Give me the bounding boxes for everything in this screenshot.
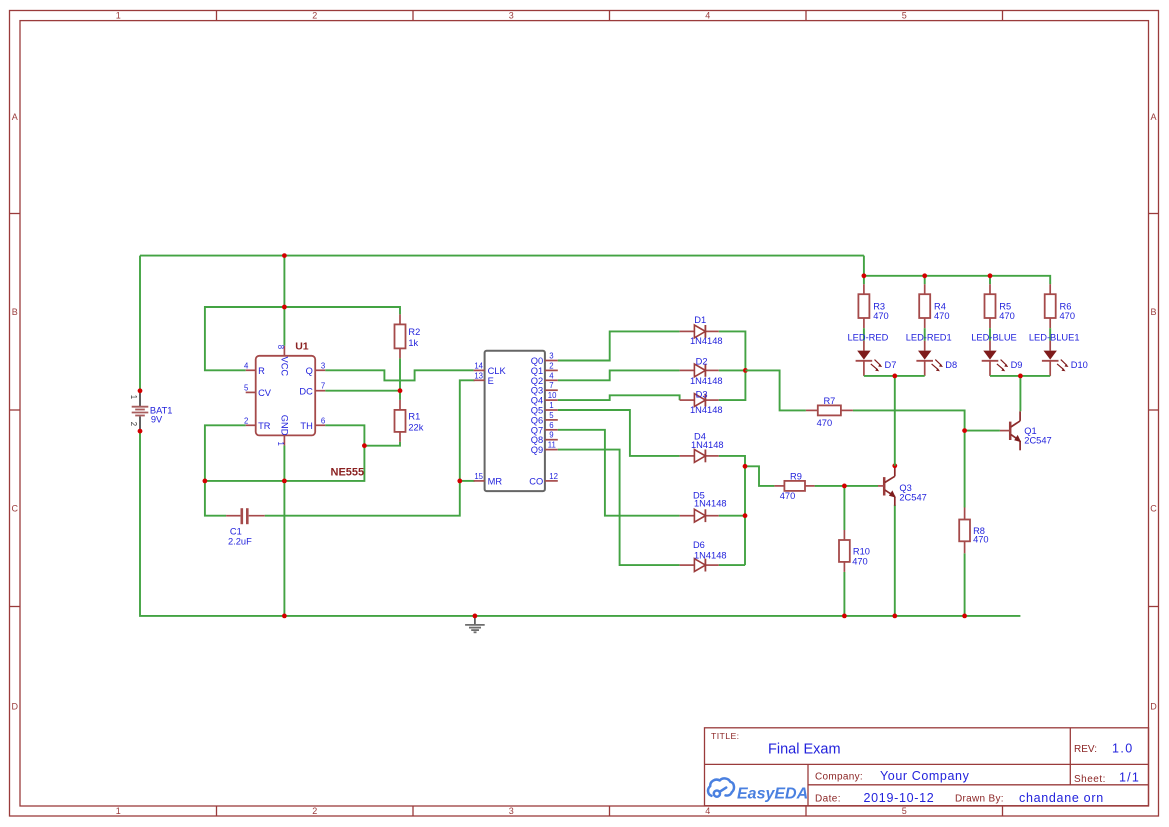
svg-text:4: 4 (705, 11, 710, 21)
junction R5 rail (988, 273, 993, 278)
svg-text:4: 4 (549, 371, 554, 380)
diode D2 1N4148 (680, 357, 723, 387)
wire R9 to Q3 base and R10 (815, 485, 878, 487)
svg-text:A: A (1150, 112, 1156, 122)
wire R4 drop (924, 276, 926, 284)
svg-text:Q1: Q1 (531, 366, 543, 376)
svg-text:6: 6 (321, 416, 325, 425)
junction GND bottom rail (282, 614, 287, 619)
svg-text:LED-BLUE1: LED-BLUE1 (1029, 333, 1080, 343)
svg-text:470: 470 (817, 418, 833, 428)
svg-text:R3: R3 (873, 302, 885, 312)
svg-text:470: 470 (780, 491, 796, 501)
wire C1 right to U2 pin13 E (265, 380, 475, 515)
wire D2 cathode to node (719, 369, 746, 371)
diode D6 1N4148 (680, 540, 727, 572)
resistor R10 (839, 530, 870, 572)
junction D456 node (743, 464, 748, 469)
svg-text:Q: Q (306, 366, 313, 376)
junction D7 D8 (892, 374, 897, 379)
battery BAT1 (129, 392, 173, 430)
wire D5 cathode to node (719, 515, 745, 517)
wire Q7 to D5 (558, 430, 680, 516)
svg-text:D6: D6 (693, 540, 705, 550)
svg-text:LED-RED: LED-RED (847, 333, 888, 343)
wire R5 to LED D9 (989, 328, 991, 341)
svg-text:NE555: NE555 (331, 466, 365, 478)
junction D9 D10 (1018, 374, 1023, 379)
svg-text:14: 14 (474, 361, 483, 370)
svg-text:2: 2 (312, 11, 317, 21)
svg-text:U1: U1 (295, 341, 309, 353)
LED D7 LED-RED (847, 333, 896, 376)
svg-text:EasyEDA: EasyEDA (737, 786, 808, 803)
svg-text:8: 8 (276, 345, 285, 349)
wire R1 top (399, 391, 401, 400)
svg-text:6: 6 (549, 421, 553, 430)
wire top power rail (140, 255, 864, 257)
IC U2 CD4017 (474, 351, 558, 491)
svg-text:4: 4 (244, 361, 249, 370)
wire D6 cathode to node (719, 564, 745, 566)
wire Q2 to D2 (558, 370, 680, 380)
resistor R5 (985, 284, 1015, 328)
svg-text:1: 1 (116, 806, 121, 816)
wire R4 to LED D8 (924, 328, 926, 341)
wire R8 bottom (964, 553, 966, 616)
svg-text:D2: D2 (696, 357, 708, 367)
svg-text:R7: R7 (823, 396, 835, 406)
svg-text:D: D (1150, 701, 1157, 711)
wire R8 top (964, 431, 966, 508)
wire node to R7 (745, 370, 806, 410)
wire R1 bottom to TH node (364, 442, 400, 446)
svg-text:CV: CV (258, 388, 272, 398)
svg-text:Drawn By:: Drawn By: (955, 794, 1004, 805)
svg-text:Date:: Date: (815, 794, 841, 805)
svg-text:D1: D1 (694, 315, 706, 325)
svg-text:2C547: 2C547 (899, 493, 926, 503)
svg-text:3: 3 (321, 361, 325, 370)
svg-text:470: 470 (973, 535, 989, 545)
junction D5 node (743, 513, 748, 518)
wire Q5 to D4 (558, 410, 680, 456)
svg-text:1: 1 (116, 11, 121, 21)
wire D4 cathode down node column (719, 456, 745, 565)
svg-text:12: 12 (549, 472, 558, 481)
junction R4 rail (922, 273, 927, 278)
svg-text:REV:: REV: (1074, 744, 1097, 755)
svg-text:470: 470 (999, 311, 1015, 321)
svg-text:Q0: Q0 (531, 356, 543, 366)
svg-text:D7: D7 (885, 360, 897, 370)
svg-text:R5: R5 (999, 302, 1011, 312)
svg-text:R4: R4 (934, 302, 946, 312)
svg-text:Q4: Q4 (531, 396, 543, 406)
junction D1 D2 D3 node (743, 368, 748, 373)
svg-text:2: 2 (129, 422, 138, 426)
LED D10 LED-BLUE1 (1029, 333, 1088, 376)
junction battery pin2 (138, 429, 143, 434)
wire node to Q1 collector (1019, 376, 1021, 411)
svg-text:R10: R10 (853, 547, 870, 557)
wire R3 to LED D7 (863, 328, 865, 341)
svg-text:2: 2 (244, 416, 248, 425)
wire R3 drop (863, 276, 865, 284)
junction GND cross (282, 479, 287, 484)
svg-text:1: 1 (129, 395, 138, 399)
svg-text:R2: R2 (408, 327, 420, 337)
svg-text:R: R (258, 366, 265, 376)
junction R8 rail (962, 614, 967, 619)
svg-text:D10: D10 (1071, 360, 1088, 370)
svg-text:D9: D9 (1011, 360, 1023, 370)
svg-text:R9: R9 (790, 472, 802, 482)
junction Q1 base R8 (962, 428, 967, 433)
svg-text:1N4148: 1N4148 (690, 336, 723, 346)
junction TR C1 corner (203, 479, 208, 484)
svg-text:MR: MR (488, 477, 503, 487)
svg-text:1: 1 (549, 401, 553, 410)
svg-text:4: 4 (705, 806, 710, 816)
svg-text:1: 1 (276, 442, 285, 446)
resistor R9 (774, 472, 814, 502)
capacitor C1 (226, 508, 265, 546)
wire U1 pin2 TR down to C1 left (205, 425, 246, 515)
wire VCC drop to U1 pin8 (283, 256, 285, 346)
svg-text:Q5: Q5 (531, 406, 543, 416)
junction R3 rail (862, 273, 867, 278)
svg-text:5: 5 (549, 411, 554, 420)
wire bottom ground rail (140, 431, 1020, 616)
svg-text:470: 470 (873, 311, 889, 321)
svg-text:R6: R6 (1060, 302, 1072, 312)
diode D1 1N4148 (680, 315, 723, 346)
svg-text:1k: 1k (408, 338, 418, 348)
svg-text:VCC: VCC (280, 357, 290, 377)
svg-text:TR: TR (258, 421, 271, 431)
svg-text:B: B (1150, 307, 1156, 317)
svg-text:TITLE:: TITLE: (711, 731, 739, 741)
svg-text:470: 470 (852, 556, 868, 566)
wire D3 cathode to node (719, 370, 746, 400)
svg-text:2C547: 2C547 (1024, 436, 1051, 446)
transistor Q1 2C547 (1000, 411, 1052, 450)
wire U1 pin3 Q to U2 pin14 CLK (325, 370, 473, 380)
svg-text:2.2uF: 2.2uF (228, 537, 252, 547)
junction Q3 collector (892, 463, 897, 468)
junction Q3 emitter rail (892, 614, 897, 619)
svg-text:LED-RED1: LED-RED1 (906, 333, 952, 343)
wire R10 bottom (843, 572, 845, 616)
wire top rail drop to LED rail (864, 256, 1050, 285)
diode D3 1N4148 (680, 389, 723, 414)
junction R2 R1 DC (398, 388, 403, 393)
resistor R1 (395, 400, 424, 442)
svg-text:DC: DC (299, 386, 313, 396)
svg-text:Your Company: Your Company (880, 769, 970, 783)
svg-text:9V: 9V (151, 415, 163, 425)
junction R9 Q3 R10 (842, 484, 847, 489)
svg-text:Q6: Q6 (531, 415, 543, 425)
diode D4 1N4148 (680, 432, 724, 463)
diode D5 1N4148 (680, 491, 727, 523)
wire R6 to LED D10 (1049, 328, 1051, 341)
svg-text:3: 3 (509, 806, 514, 816)
junction TH R1 (362, 443, 367, 448)
wire R5 drop (989, 276, 991, 284)
svg-text:Q9: Q9 (531, 445, 543, 455)
svg-text:C1: C1 (230, 527, 242, 537)
wire U1 pin4 R to R2 top (205, 307, 400, 370)
wire U1 pin1 GND to bottom rail (283, 445, 285, 616)
svg-text:10: 10 (548, 391, 557, 400)
svg-text:11: 11 (548, 441, 556, 450)
wire D456 node to R9 (745, 466, 774, 486)
resistor R7 (806, 396, 853, 428)
wire D7 D8 cathodes (864, 375, 925, 377)
junction VCC at top rail (282, 253, 287, 258)
svg-text:Sheet:: Sheet: (1074, 774, 1106, 785)
junction MR (457, 479, 462, 484)
junction battery pin1 (138, 388, 143, 393)
resistor R2 (395, 314, 421, 358)
svg-text:15: 15 (474, 472, 483, 481)
svg-text:LED-BLUE: LED-BLUE (971, 333, 1016, 343)
svg-text:Final Exam: Final Exam (768, 742, 841, 758)
wire Q0 to D1 (558, 331, 680, 360)
wire D9 D10 cathodes (990, 375, 1050, 377)
svg-text:7: 7 (321, 382, 325, 391)
svg-text:7: 7 (549, 381, 553, 390)
junction VCC and R wire (282, 305, 287, 310)
svg-text:TH: TH (300, 421, 312, 431)
svg-text:C: C (11, 503, 18, 513)
svg-text:C: C (1150, 503, 1157, 513)
svg-text:Q7: Q7 (531, 425, 543, 435)
svg-text:470: 470 (934, 311, 950, 321)
svg-text:CO: CO (529, 477, 543, 487)
wire U1 pin6 TH down to gnd net (205, 425, 365, 481)
svg-text:22k: 22k (408, 423, 423, 433)
wire Q9 to D6 (558, 450, 680, 565)
svg-text:1N4148: 1N4148 (694, 550, 727, 560)
svg-text:Q1: Q1 (1024, 426, 1036, 436)
svg-text:13: 13 (474, 371, 483, 380)
svg-text:3: 3 (549, 352, 553, 361)
wire R2 bottom to DC junction (399, 358, 401, 390)
svg-text:Company:: Company: (815, 772, 863, 783)
svg-text:E: E (488, 376, 494, 386)
LED D8 LED-RED1 (906, 333, 957, 376)
svg-text:1N4148: 1N4148 (691, 440, 724, 450)
svg-text:Q2: Q2 (531, 376, 543, 386)
transistor Q3 2C547 (878, 466, 927, 616)
wire R7 to Q1 base and R8 (853, 410, 965, 430)
svg-text:R1: R1 (408, 412, 420, 422)
wire node to Q3 collector (894, 376, 896, 466)
svg-text:A: A (12, 112, 18, 122)
svg-text:5: 5 (244, 383, 249, 392)
svg-text:5: 5 (902, 11, 907, 21)
op-amp U1 NE555 (244, 341, 364, 479)
svg-text:1N4148: 1N4148 (690, 405, 723, 415)
wire U2 pin15 MR stub (460, 480, 475, 482)
wire Q1 base (965, 430, 1000, 432)
svg-text:1N4148: 1N4148 (694, 499, 727, 509)
wire Q4 to D3 (558, 395, 680, 400)
svg-text:9: 9 (549, 431, 553, 440)
svg-text:Q3: Q3 (899, 483, 911, 493)
svg-text:2019-10-12: 2019-10-12 (864, 791, 935, 805)
svg-text:2: 2 (312, 806, 317, 816)
svg-text:Q3: Q3 (531, 386, 543, 396)
ground (465, 617, 485, 632)
svg-text:5: 5 (902, 806, 907, 816)
resistor R4 (919, 284, 949, 328)
svg-text:chandane orn: chandane orn (1019, 791, 1104, 805)
svg-text:3: 3 (509, 11, 514, 21)
LED D9 LED-BLUE (971, 333, 1022, 376)
svg-text:CLK: CLK (488, 366, 507, 376)
svg-text:B: B (12, 307, 18, 317)
junction ground rail (473, 614, 478, 619)
wire D1 cathode to node (719, 331, 746, 370)
svg-text:D3: D3 (696, 389, 708, 399)
resistor R3 (858, 284, 888, 328)
junction R10 rail (842, 614, 847, 619)
wire left battery rail (139, 256, 141, 391)
svg-text:D8: D8 (945, 360, 957, 370)
svg-text:470: 470 (1060, 311, 1076, 321)
svg-text:2: 2 (549, 361, 553, 370)
resistor R6 (1045, 284, 1075, 328)
svg-text:Q8: Q8 (531, 435, 543, 445)
svg-text:GND: GND (280, 415, 290, 436)
wire U1 pin7 DC (325, 390, 400, 392)
resistor R8 (959, 508, 988, 554)
svg-text:D: D (11, 701, 18, 711)
wire R10 top (843, 486, 845, 530)
svg-text:1.0: 1.0 (1112, 742, 1134, 756)
svg-text:1/1: 1/1 (1119, 771, 1140, 785)
svg-text:1N4148: 1N4148 (690, 376, 723, 386)
